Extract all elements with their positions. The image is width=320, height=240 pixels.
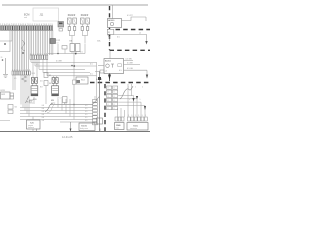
svg-text:x1: x1 bbox=[139, 33, 141, 35]
svg-text:5: 5 bbox=[140, 99, 141, 101]
svg-text:3: 3 bbox=[128, 115, 129, 117]
svg-text:0.5: 0.5 bbox=[85, 120, 87, 122]
svg-text:unit: unit bbox=[24, 16, 27, 19]
svg-text:3: 3 bbox=[35, 53, 36, 55]
svg-text:4: 4 bbox=[37, 53, 38, 55]
svg-text:8: 8 bbox=[108, 88, 109, 90]
svg-text:0.5 BR: 0.5 BR bbox=[56, 61, 62, 63]
svg-text:7: 7 bbox=[44, 53, 45, 55]
svg-text:F3: F3 bbox=[49, 75, 51, 77]
svg-text:8: 8 bbox=[108, 92, 109, 94]
svg-text:0.5: 0.5 bbox=[119, 70, 122, 72]
svg-text:8: 8 bbox=[114, 92, 115, 94]
svg-text:4: 4 bbox=[19, 69, 20, 71]
svg-text:0.5: 0.5 bbox=[117, 37, 120, 39]
svg-text:0.5: 0.5 bbox=[80, 52, 83, 54]
svg-text:ab: ab bbox=[105, 71, 107, 73]
svg-text:1: 1 bbox=[12, 69, 13, 71]
svg-text:8: 8 bbox=[27, 69, 28, 71]
svg-text:2: 2 bbox=[14, 69, 15, 71]
svg-text:B228: B228 bbox=[1, 90, 5, 92]
svg-text:F102 R: F102 R bbox=[81, 15, 89, 17]
svg-text:1: 1 bbox=[30, 53, 31, 55]
svg-text:body conn: body conn bbox=[80, 128, 88, 130]
svg-text:4.6: 4.6 bbox=[40, 81, 43, 83]
svg-text:A6401: A6401 bbox=[105, 60, 112, 63]
svg-text:0.5 BR: 0.5 BR bbox=[127, 63, 133, 65]
svg-text:2: 2 bbox=[135, 87, 136, 89]
svg-text:S RLY: S RLY bbox=[27, 102, 33, 104]
svg-text:0.5: 0.5 bbox=[14, 78, 16, 80]
svg-text:0.5 SW: 0.5 SW bbox=[126, 58, 132, 60]
svg-text:S2: S2 bbox=[15, 107, 17, 109]
svg-text:DME: DME bbox=[116, 125, 121, 127]
svg-text:3: 3 bbox=[16, 69, 17, 71]
svg-text:8: 8 bbox=[114, 88, 115, 90]
svg-text:8.8: 8.8 bbox=[40, 87, 43, 89]
svg-text:3: 3 bbox=[138, 115, 139, 117]
svg-text:F101 R: F101 R bbox=[68, 15, 76, 17]
svg-text:12-31-05: 12-31-05 bbox=[62, 135, 73, 139]
svg-text:3: 3 bbox=[129, 99, 130, 101]
svg-text:X600: X600 bbox=[133, 126, 139, 128]
svg-text:0.5: 0.5 bbox=[36, 64, 38, 66]
svg-text:6: 6 bbox=[23, 69, 24, 71]
svg-text:5: 5 bbox=[21, 69, 22, 71]
svg-text:31: 31 bbox=[1, 57, 3, 59]
svg-text:0.5: 0.5 bbox=[85, 117, 87, 119]
svg-text:0.5: 0.5 bbox=[85, 108, 87, 110]
svg-text:A6400: A6400 bbox=[108, 19, 115, 22]
svg-text:0.5: 0.5 bbox=[90, 74, 93, 76]
svg-text:6: 6 bbox=[42, 53, 43, 55]
svg-text:8: 8 bbox=[108, 108, 109, 110]
svg-text:main: main bbox=[116, 128, 120, 130]
svg-text:1: 1 bbox=[128, 87, 129, 89]
svg-text:8: 8 bbox=[114, 108, 115, 110]
svg-text:5: 5 bbox=[39, 53, 40, 55]
svg-text:7: 7 bbox=[25, 69, 26, 71]
svg-text:0.5: 0.5 bbox=[90, 64, 93, 66]
svg-text:0.5: 0.5 bbox=[85, 111, 87, 113]
svg-text:8: 8 bbox=[108, 104, 109, 106]
svg-text:3: 3 bbox=[135, 115, 136, 117]
svg-text:0.5: 0.5 bbox=[85, 105, 87, 107]
svg-text:3: 3 bbox=[51, 24, 52, 26]
svg-text:8: 8 bbox=[114, 104, 115, 106]
svg-text:harness: harness bbox=[28, 126, 34, 129]
svg-text:0.5 RT: 0.5 RT bbox=[127, 15, 133, 17]
svg-text:8: 8 bbox=[114, 100, 115, 102]
svg-text:3: 3 bbox=[142, 115, 143, 117]
svg-text:X13: X13 bbox=[32, 73, 35, 75]
svg-text:2: 2 bbox=[33, 53, 34, 55]
svg-text:9: 9 bbox=[29, 69, 30, 71]
svg-text:3: 3 bbox=[145, 115, 146, 117]
svg-text:0.5: 0.5 bbox=[85, 114, 87, 116]
svg-text:8: 8 bbox=[114, 96, 115, 98]
svg-text:F4: F4 bbox=[49, 83, 51, 85]
svg-text:8: 8 bbox=[46, 53, 47, 55]
svg-text:a b c d: a b c d bbox=[57, 98, 62, 100]
svg-text:0.5 GE: 0.5 GE bbox=[127, 68, 134, 70]
svg-text:3: 3 bbox=[131, 115, 132, 117]
svg-text:8: 8 bbox=[108, 100, 109, 102]
svg-text:8: 8 bbox=[108, 96, 109, 98]
svg-text:4: 4 bbox=[142, 87, 143, 89]
